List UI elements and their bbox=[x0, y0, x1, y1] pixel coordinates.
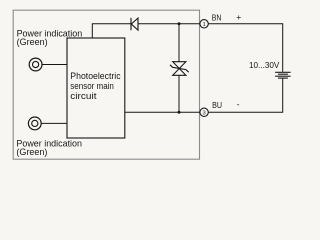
svg-text:sensor main: sensor main bbox=[70, 81, 114, 91]
junction node on BU rail bbox=[178, 111, 181, 114]
wire: circuit block right side to terminal 3 (BU rail) bbox=[125, 111, 200, 113]
svg-text:BU: BU bbox=[212, 100, 222, 110]
LED indicator lamp top (green power indication) bbox=[29, 58, 42, 71]
bidirectional suppressor (TVS) diode Z1 bbox=[170, 62, 189, 76]
svg-text:circuit: circuit bbox=[70, 91, 97, 101]
svg-text:(Green): (Green) bbox=[16, 147, 47, 157]
wire: diode to terminal 1 bbox=[138, 23, 200, 25]
wire: bottom indicator to circuit block bbox=[41, 122, 67, 124]
terminal 1 (BN) bbox=[200, 20, 208, 28]
svg-text:3: 3 bbox=[202, 111, 205, 117]
svg-text:BN: BN bbox=[212, 12, 222, 22]
label: Power indication (Green) bottom bbox=[16, 138, 82, 156]
terminal 3 (BU) bbox=[200, 108, 208, 116]
svg-text:10...30V: 10...30V bbox=[249, 60, 280, 70]
wire: BN rail junction down to suppressor bbox=[178, 24, 180, 62]
photoelectric sensor main circuit block U1 bbox=[67, 38, 125, 138]
wire: top indicator to circuit block bbox=[42, 64, 67, 66]
label: Power indication (Green) top bbox=[17, 28, 83, 46]
svg-text:+: + bbox=[236, 12, 241, 22]
LED indicator lamp bottom (green power indication) bbox=[28, 117, 41, 130]
wire: suppressor down to BU rail junction bbox=[178, 75, 180, 112]
wire: terminal 1 to battery positive bbox=[208, 24, 282, 72]
diode D1 (reverse polarity protection) bbox=[131, 18, 138, 30]
battery B1 (supply 10...30V) bbox=[275, 72, 291, 78]
svg-text:(Green): (Green) bbox=[17, 37, 48, 47]
sensor housing outline bbox=[13, 10, 199, 159]
svg-text:Photoelectric: Photoelectric bbox=[70, 71, 121, 81]
wire: circuit block top to BN rail bbox=[92, 24, 131, 38]
junction node on BN rail bbox=[178, 22, 181, 25]
wire: battery negative to terminal 3 bbox=[208, 79, 282, 113]
svg-text:1: 1 bbox=[202, 22, 205, 28]
svg-text:-: - bbox=[237, 99, 240, 109]
